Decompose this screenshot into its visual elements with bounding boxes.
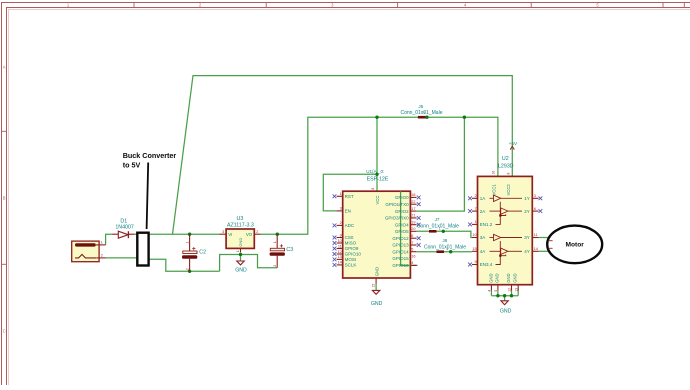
svg-text:3: 3 bbox=[534, 194, 536, 198]
svg-text:7: 7 bbox=[411, 241, 413, 245]
svg-text:GPIO1/TX0: GPIO1/TX0 bbox=[385, 202, 409, 207]
svg-text:GND: GND bbox=[494, 273, 499, 282]
svg-text:12: 12 bbox=[338, 250, 342, 254]
svg-text:Buck Converter: Buck Converter bbox=[123, 151, 177, 160]
svg-text:J7: J7 bbox=[435, 217, 440, 222]
svg-text:GPIO13: GPIO13 bbox=[392, 243, 409, 248]
svg-text:4A: 4A bbox=[480, 249, 486, 254]
svg-text:A: A bbox=[3, 65, 6, 70]
svg-text:U2: U2 bbox=[502, 156, 509, 162]
svg-text:GPIO10: GPIO10 bbox=[345, 252, 362, 257]
svg-text:VI: VI bbox=[228, 232, 232, 237]
svg-text:L293D: L293D bbox=[498, 163, 514, 169]
svg-text:16: 16 bbox=[492, 171, 496, 175]
svg-text:EN: EN bbox=[345, 209, 351, 214]
svg-text:SCLK: SCLK bbox=[345, 263, 357, 268]
svg-text:EN3.4: EN3.4 bbox=[480, 262, 493, 267]
svg-text:VCC1: VCC1 bbox=[491, 184, 496, 196]
svg-text:11: 11 bbox=[338, 244, 342, 248]
svg-text:GND: GND bbox=[235, 268, 247, 274]
svg-text:GPIO5: GPIO5 bbox=[395, 229, 409, 234]
svg-text:B: B bbox=[3, 196, 6, 201]
svg-text:GPIO3/RX0: GPIO3/RX0 bbox=[385, 216, 409, 221]
svg-text:GND: GND bbox=[500, 309, 512, 315]
svg-text:9: 9 bbox=[340, 233, 342, 237]
svg-text:20: 20 bbox=[411, 227, 415, 231]
svg-text:3Y: 3Y bbox=[524, 235, 530, 240]
svg-text:6: 6 bbox=[534, 207, 536, 211]
svg-text:GPIO12: GPIO12 bbox=[392, 236, 409, 241]
svg-text:1Y: 1Y bbox=[524, 196, 530, 201]
svg-text:VO: VO bbox=[246, 232, 253, 237]
svg-text:MISO: MISO bbox=[345, 241, 357, 246]
svg-text:GND: GND bbox=[489, 273, 494, 282]
svg-text:4: 4 bbox=[411, 261, 413, 265]
svg-text:GPIO16: GPIO16 bbox=[392, 263, 409, 268]
svg-text:C2: C2 bbox=[199, 250, 206, 256]
svg-text:16: 16 bbox=[411, 254, 415, 258]
svg-text:1: 1 bbox=[474, 220, 476, 224]
svg-text:3: 3 bbox=[340, 207, 342, 211]
svg-text:7: 7 bbox=[474, 207, 476, 211]
svg-text:GPIO9: GPIO9 bbox=[345, 246, 359, 251]
svg-text:14: 14 bbox=[534, 247, 538, 251]
svg-text:VCC2: VCC2 bbox=[506, 184, 511, 196]
svg-text:MOSI: MOSI bbox=[345, 257, 357, 262]
svg-text:2: 2 bbox=[474, 194, 476, 198]
svg-text:8: 8 bbox=[371, 188, 375, 190]
svg-text:2: 2 bbox=[340, 221, 342, 225]
svg-text:19: 19 bbox=[411, 221, 415, 225]
svg-text:ESP-12E: ESP-12E bbox=[367, 177, 389, 183]
svg-text:GND: GND bbox=[371, 301, 383, 307]
svg-text:1: 1 bbox=[101, 241, 103, 245]
svg-text:8: 8 bbox=[506, 173, 510, 175]
svg-text:GPIO14: GPIO14 bbox=[392, 249, 409, 254]
svg-text:Conn_01x01_Male: Conn_01x01_Male bbox=[417, 224, 459, 230]
svg-text:11: 11 bbox=[534, 233, 538, 237]
svg-text:U1(A._0:: U1(A._0: bbox=[366, 169, 384, 174]
svg-text:2: 2 bbox=[273, 265, 277, 267]
svg-text:2A: 2A bbox=[480, 209, 486, 214]
svg-text:Motor: Motor bbox=[566, 242, 585, 249]
svg-text:15: 15 bbox=[372, 284, 376, 288]
svg-text:9: 9 bbox=[474, 260, 476, 264]
svg-text:13: 13 bbox=[338, 255, 342, 259]
svg-text:CS0: CS0 bbox=[345, 235, 354, 240]
svg-text:3A: 3A bbox=[480, 235, 486, 240]
svg-text:U3: U3 bbox=[237, 216, 244, 222]
svg-text:1N4007: 1N4007 bbox=[115, 224, 134, 230]
svg-text:GND: GND bbox=[513, 273, 518, 282]
svg-text:GPIO2: GPIO2 bbox=[395, 209, 409, 214]
svg-text:2: 2 bbox=[256, 230, 258, 234]
svg-text:14: 14 bbox=[338, 261, 342, 265]
svg-text:2: 2 bbox=[101, 254, 103, 258]
svg-text:GPIO0: GPIO0 bbox=[395, 195, 409, 200]
svg-text:21: 21 bbox=[411, 214, 415, 218]
svg-text:RST: RST bbox=[345, 194, 354, 199]
svg-text:VCC: VCC bbox=[375, 196, 380, 205]
svg-text:Conn_01x01_Male: Conn_01x01_Male bbox=[424, 245, 466, 251]
svg-text:5: 5 bbox=[411, 248, 413, 252]
svg-text:18: 18 bbox=[411, 193, 415, 197]
svg-text:1: 1 bbox=[236, 250, 240, 252]
svg-text:J5: J5 bbox=[418, 104, 423, 109]
svg-text:GND: GND bbox=[374, 267, 379, 276]
svg-text:2: 2 bbox=[185, 268, 189, 270]
svg-text:GND: GND bbox=[506, 273, 511, 282]
svg-text:C: C bbox=[3, 329, 6, 334]
svg-text:ADC: ADC bbox=[345, 223, 355, 228]
svg-text:1: 1 bbox=[185, 242, 189, 244]
svg-text:3: 3 bbox=[222, 230, 224, 234]
svg-text:1: 1 bbox=[273, 241, 277, 243]
svg-text:GND: GND bbox=[238, 238, 243, 247]
svg-text:6: 6 bbox=[411, 234, 413, 238]
svg-text:+5V: +5V bbox=[509, 141, 518, 147]
svg-text:Conn_01x01_Male: Conn_01x01_Male bbox=[401, 110, 443, 116]
svg-text:AZ1117-3.3: AZ1117-3.3 bbox=[227, 222, 254, 228]
svg-text:C3: C3 bbox=[286, 247, 293, 253]
svg-text:17: 17 bbox=[411, 207, 415, 211]
svg-text:10: 10 bbox=[472, 233, 476, 237]
svg-text:2Y: 2Y bbox=[524, 209, 530, 214]
svg-text:to 5V: to 5V bbox=[123, 160, 141, 169]
svg-text:10: 10 bbox=[338, 239, 342, 243]
svg-text:1A: 1A bbox=[480, 196, 486, 201]
svg-text:J8: J8 bbox=[442, 238, 447, 243]
svg-text:EN1.2: EN1.2 bbox=[480, 222, 493, 227]
svg-text:1: 1 bbox=[340, 192, 342, 196]
svg-text:15: 15 bbox=[472, 247, 476, 251]
svg-text:22: 22 bbox=[411, 200, 415, 204]
svg-text:GPIO15: GPIO15 bbox=[392, 256, 409, 261]
svg-text:4Y: 4Y bbox=[524, 249, 530, 254]
svg-text:GPIO4: GPIO4 bbox=[395, 222, 409, 227]
